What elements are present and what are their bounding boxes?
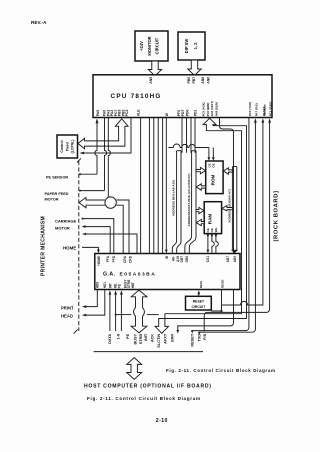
printer mechanism side label [40, 216, 46, 276]
connector signal labels RESET TXD P/S [191, 333, 208, 346]
host connector bar [94, 351, 203, 353]
svg-text:IN1: IN1 [113, 283, 117, 288]
svg-text:MOTOR: MOTOR [45, 198, 59, 202]
svg-text:RESI: RESI [199, 281, 203, 288]
svg-text:HD1: HD1 [103, 282, 107, 289]
svg-text:PE: PE [118, 284, 122, 288]
svg-text:SLCTIN: SLCTIN [157, 334, 161, 348]
address bus A8-A15 hollow vertical [172, 151, 181, 254]
svg-text:CIRCUIT: CIRCUIT [192, 305, 207, 309]
svg-text:ADDRESS/DATA BUS (A0-A7/D0-D7): ADDRESS/DATA BUS (A0-A7/D0-D7) [187, 173, 191, 226]
carriage motor label [55, 218, 77, 230]
paper feed motor label [45, 192, 69, 202]
svg-text:HOME: HOME [97, 256, 101, 266]
svg-text:1-8: 1-8 [117, 333, 121, 339]
print head label [61, 305, 74, 318]
svg-text:AN6: AN6 [201, 77, 205, 84]
hollow bidirectional bus CPU to control panel [78, 119, 128, 149]
svg-text:PC2: PC2 [125, 110, 129, 117]
hollow arrow A0-A7 bus to RAM right [222, 205, 233, 210]
hollow arrow bus to ROM left [196, 167, 205, 173]
wire CPU P/S to connector [198, 118, 257, 335]
svg-text:AN3 (AFXT): AN3 (AFXT) [210, 101, 214, 116]
figure caption centered [87, 396, 201, 401]
wire CPU PB1 host status to connector via right side [176, 118, 233, 334]
svg-text:AN5: AN5 [149, 77, 153, 84]
svg-text:HOME: HOME [63, 245, 76, 250]
RAM block [204, 202, 221, 234]
paper feed motor driver circle [105, 197, 116, 208]
wire paper feed phase to CPU PA0 with hop [79, 118, 107, 192]
wire CPU TXD to connector [191, 118, 249, 334]
rock board label [274, 191, 280, 242]
wire reset circuit to GA RESI [197, 290, 200, 296]
page revision label REV.-A [31, 20, 47, 25]
address bus A0-A7 hollow vertical right [231, 167, 238, 254]
hollow double arrow GA data to host connector [131, 290, 147, 333]
svg-text:DB7: DB7 [180, 256, 184, 263]
figure caption beside arrow [166, 368, 276, 373]
svg-text:G.A.: G.A. [103, 271, 116, 277]
svg-text:CRA: CRA [123, 255, 127, 263]
wire CPU RESET to reset circuit with hop [222, 118, 265, 305]
svg-text:[ROCK BOARD]: [ROCK BOARD] [274, 191, 280, 242]
svg-text:REV.-A: REV.-A [31, 20, 47, 25]
svg-text:PA5: PA5 [96, 110, 100, 117]
wire home sensor to GA HOME pin [82, 247, 100, 253]
address/data bus hollow vertical [185, 151, 196, 254]
reset circuit block [186, 296, 212, 310]
svg-text:CS1: CS1 [206, 256, 210, 262]
svg-text:AN0: AN0 [207, 77, 211, 84]
connector signal labels DATA..ERR [108, 333, 175, 348]
svg-text:HEAD: HEAD [61, 313, 73, 318]
svg-text:DB0: DB0 [185, 256, 189, 263]
svg-text:ERR: ERR [171, 334, 175, 342]
wire CPU RXD to connector [204, 118, 271, 331]
hollow arrow paper feed driver to paper feed motor [79, 197, 105, 207]
svg-text:OE: OE [212, 163, 216, 167]
svg-text:Fig. 2-11. Control Circuit Blo: Fig. 2-11. Control Circuit Block Diagram [87, 396, 201, 401]
svg-text:ADDRESS BUS (A8-A15): ADDRESS BUS (A8-A15) [171, 180, 175, 216]
hollow arrow ROM to data bus [196, 184, 205, 190]
svg-text:PD0: PD0 [185, 110, 189, 117]
CPU bottom pin labels right group PC0(TXD) PA7(P/S) RESET PC1(RXD) [248, 102, 273, 117]
hollow route CPU host signals down right side to connector arrow [155, 118, 246, 333]
svg-text:W: W [165, 256, 169, 259]
wire RAM CE to GA CS1 [207, 234, 210, 254]
svg-text:PB0: PB0 [187, 77, 191, 84]
CPU bottom pin labels middle group PF0 PD7 PD0 [177, 110, 197, 117]
svg-text:2-10: 2-10 [156, 418, 168, 424]
svg-text:PAPER FEED: PAPER FEED [45, 192, 69, 196]
DIP switch block [178, 32, 205, 60]
svg-text:(LCPNL): (LCPNL) [71, 140, 75, 154]
svg-text:ACK: ACK [151, 334, 155, 343]
svg-text:WE: WE [214, 228, 218, 233]
wire GA IN1 to connector with junction [114, 290, 117, 331]
svg-text:INIT: INIT [131, 282, 135, 288]
control panel block (LCPNL) [57, 135, 78, 158]
svg-text:Fig. 2-11. Control Circuit Blo: Fig. 2-11. Control Circuit Block Diagram [166, 368, 276, 373]
GA bottom pin labels [95, 279, 224, 289]
svg-text:RESO: RESO [220, 279, 224, 288]
svg-text:DATA: DATA [108, 334, 112, 344]
ROM block [206, 161, 223, 194]
CPU bottom pin labels host group PC5(ACK) PC6(ERR) AN3(AFXT) AN4(SLIN) [202, 101, 219, 116]
wire CPU PA3 to paper feed driver with hop [108, 118, 110, 198]
svg-text:AB7: AB7 [226, 256, 230, 263]
hollow arrow from +24V monitor to CPU AN5 [148, 61, 161, 76]
svg-text:ADDRESS BUS(A0-A7): ADDRESS BUS(A0-A7) [227, 189, 231, 223]
wire control panel aux line to CPU [80, 118, 132, 154]
svg-text:PB7: PB7 [192, 77, 196, 84]
wire carriage motor line 2 to GA [82, 225, 111, 253]
svg-text:CRD: CRD [129, 255, 133, 263]
svg-text:Panel: Panel [65, 142, 69, 151]
svg-text:MOTOR: MOTOR [55, 225, 70, 230]
svg-text:PC1 (RXD): PC1 (RXD) [269, 102, 273, 117]
hollow arrow RAM to data bus [196, 219, 204, 225]
wire ROM chip-select from bus area [169, 144, 215, 161]
wire GA PE to connector [120, 290, 123, 331]
home sensor label [63, 245, 76, 250]
svg-text:Control: Control [60, 140, 64, 152]
svg-text:TXD: TXD [198, 334, 202, 342]
svg-text:HD9: HD9 [95, 282, 99, 289]
printer mechanism boundary dash-dot line [74, 158, 81, 333]
hollow arrow A0-A7 bus to ROM right [223, 168, 232, 174]
wires CPU to address bus with hops [182, 118, 195, 153]
svg-text:P/S: P/S [203, 333, 207, 340]
svg-text:PC0 (TXD): PC0 (TXD) [248, 102, 252, 116]
wire carriage motor line 3 to GA crossing motor band [82, 233, 137, 254]
wires CPU ALE group down to GA [141, 118, 163, 254]
svg-text:PFA: PFA [106, 255, 110, 262]
gate array E05A03BA block U2 [95, 254, 240, 290]
svg-text:E05A03BA: E05A03BA [120, 271, 157, 277]
wire PE sensor to CPU PA5 with crossover hop [79, 118, 99, 175]
wire GA INT to connector [109, 290, 112, 331]
address bus label [171, 180, 175, 216]
page number [156, 418, 168, 424]
address/data bus label [187, 173, 191, 226]
CPU top pin labels PB0 PB7 AN6 AN0 [187, 77, 211, 84]
wire CPU W to GA W pin [165, 118, 168, 254]
wire GA HD1 to print head [82, 290, 105, 317]
svg-text:PC5 (ACK): PC5 (ACK) [202, 102, 206, 116]
svg-text:PE SENSOR: PE SENSOR [46, 175, 68, 179]
svg-text:PRINT: PRINT [61, 305, 74, 310]
svg-text:ALE: ALE [137, 109, 141, 117]
CPU bottom pin labels left group PA5..PC2 ALE [96, 109, 169, 117]
CPU top pin label AN5 [149, 77, 153, 84]
svg-text:MONITOR: MONITOR [147, 36, 152, 55]
hollow arrow bus to RAM left [196, 207, 204, 213]
GA top pin labels [97, 255, 237, 265]
svg-text:INT: INT [108, 283, 112, 288]
wire junction row to status arrow [116, 314, 159, 316]
svg-text:PFD: PFD [112, 255, 116, 262]
CPU 7810HG block U1 [93, 75, 272, 118]
svg-text:RESET: RESET [191, 333, 195, 346]
+24V monitor circuit block [135, 31, 168, 61]
host computer label [84, 384, 212, 390]
wires RAM OE WE to GA with hops [211, 234, 219, 254]
svg-text:BUSY: BUSY [134, 333, 138, 344]
svg-text:+24V: +24V [139, 41, 144, 51]
svg-text:PC6 (ERR): PC6 (ERR) [206, 102, 210, 116]
wire carriage motor line 1 to GA [82, 218, 114, 254]
svg-text:DIP SW: DIP SW [184, 39, 189, 54]
svg-text:HOST COMPUTER (OPTIONAL I/F BO: HOST COMPUTER (OPTIONAL I/F BOARD) [84, 384, 212, 390]
svg-text:AB0: AB0 [233, 256, 237, 263]
svg-text:RAM: RAM [208, 214, 213, 225]
hollow double arrow connector to host computer [127, 358, 142, 380]
svg-text:PA7 (P/S): PA7 (P/S) [254, 103, 258, 116]
svg-text:ROM: ROM [211, 174, 216, 185]
wire GA RESO to reset circuit [211, 290, 222, 313]
svg-text:STRB: STRB [139, 334, 143, 345]
svg-text:CIRCUIT: CIRCUIT [155, 37, 160, 54]
address bus A0-A7 label [227, 189, 231, 223]
svg-text:INIT: INIT [144, 333, 148, 341]
wire GA HD9 to print head [82, 290, 97, 309]
hollow band driver to GA CRA/CRD pins with hops [116, 200, 129, 253]
svg-text:1, 2: 1, 2 [193, 42, 198, 50]
svg-text:PE: PE [126, 333, 130, 339]
svg-text:RESET: RESET [193, 300, 205, 304]
svg-text:AFXT: AFXT [164, 333, 168, 344]
hollow arrow from DIP SW to CPU PB0-PB7 [188, 60, 201, 76]
svg-text:PRINTER MECHANISM: PRINTER MECHANISM [40, 216, 46, 276]
PE sensor label [46, 175, 68, 179]
svg-text:CARRIAGE: CARRIAGE [55, 218, 77, 223]
svg-text:CPU 7810HG: CPU 7810HG [111, 93, 162, 100]
svg-text:AN4 (SLIN): AN4 (SLIN) [215, 102, 219, 116]
svg-text:PD1: PD1 [193, 110, 197, 117]
